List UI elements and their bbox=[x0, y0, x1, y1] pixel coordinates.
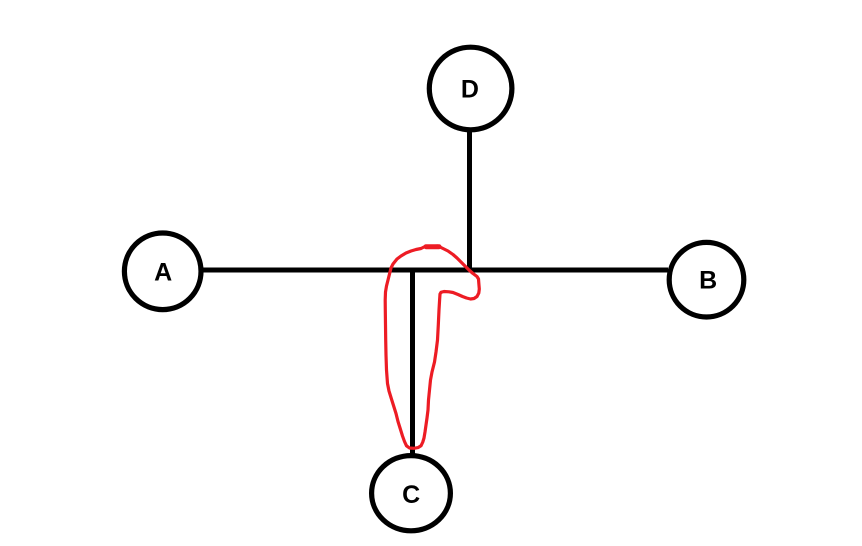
node C bbox=[372, 456, 451, 531]
node A bbox=[124, 233, 201, 310]
node B bbox=[669, 242, 744, 317]
red freehand loop around wire C bbox=[385, 246, 479, 448]
red loop start blob (thicker overlap segment at top) bbox=[426, 244, 439, 249]
svg-text:D: D bbox=[461, 75, 479, 103]
wire A-B horizontal bbox=[203, 268, 668, 273]
svg-text:A: A bbox=[154, 259, 172, 287]
svg-text:B: B bbox=[699, 267, 717, 295]
svg-text:C: C bbox=[402, 481, 420, 509]
node D bbox=[429, 47, 512, 130]
wire C vertical bbox=[410, 269, 415, 454]
wire D vertical bbox=[467, 131, 472, 271]
